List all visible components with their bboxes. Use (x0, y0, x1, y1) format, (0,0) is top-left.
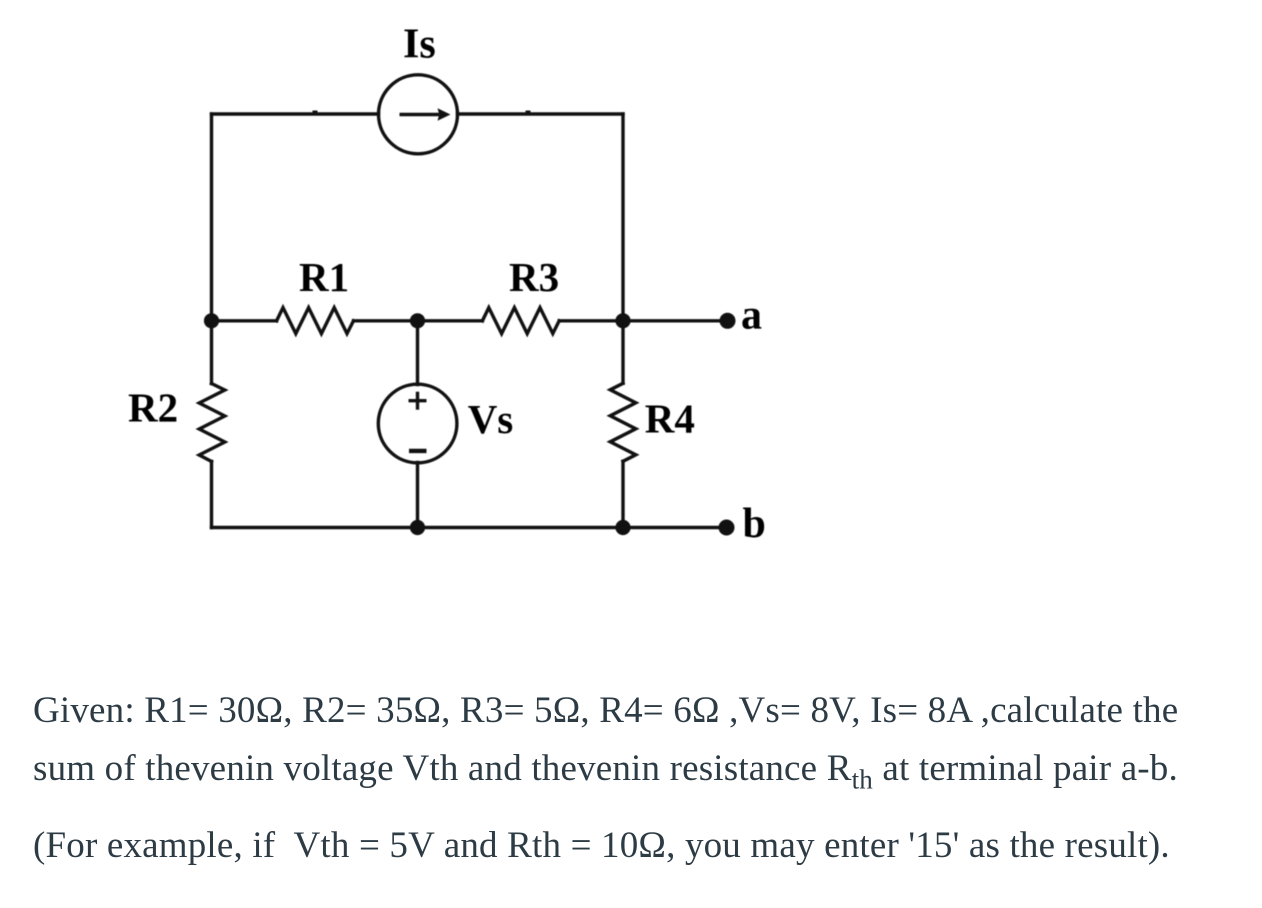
svg-text:a: a (741, 292, 762, 338)
question text paragraph 1 (33, 682, 1178, 808)
svg-text:R4: R4 (645, 396, 695, 442)
question text paragraph 2 (33, 817, 1170, 875)
resistor R3 (482, 308, 559, 334)
svg-text:R2: R2 (128, 385, 178, 431)
wire left vertical lower (210, 462, 213, 528)
wire middle right to terminal a (559, 319, 727, 322)
resistor R4 (610, 383, 636, 461)
wire middle center (354, 319, 483, 322)
svg-text:b: b (743, 501, 766, 547)
stray tick left (313, 111, 318, 114)
terminal b dot (719, 520, 735, 536)
wire middle left (212, 319, 277, 322)
wire right vertical lower (621, 461, 624, 527)
node junction right-bottom (615, 520, 630, 535)
svg-text:Vs: Vs (468, 396, 514, 442)
stray tick right (526, 111, 531, 114)
wire left vertical upper (210, 114, 213, 384)
wire right vertical upper (621, 114, 624, 383)
svg-text:R1: R1 (299, 254, 349, 300)
node junction left-middle (204, 313, 219, 328)
resistor R1 (277, 308, 354, 334)
node junction right-middle (615, 313, 630, 328)
wire Vs lower (416, 463, 419, 528)
svg-text:R3: R3 (509, 254, 559, 300)
node junction middle-bottom (410, 520, 425, 535)
current source Is arrow (400, 108, 451, 121)
current source Is circle (379, 75, 458, 154)
voltage source Vs plus sign (409, 392, 427, 410)
voltage source Vs minus sign (409, 449, 427, 453)
wire top-left segment (212, 112, 379, 115)
svg-text:Is: Is (403, 22, 436, 68)
terminal a dot (720, 313, 736, 329)
node junction middle (410, 313, 425, 328)
voltage source Vs circle (378, 384, 457, 463)
wire bottom to terminal b (212, 526, 727, 529)
resistor R2 (199, 384, 225, 462)
wire top-right segment (458, 112, 624, 115)
wire Vs upper (416, 321, 419, 385)
